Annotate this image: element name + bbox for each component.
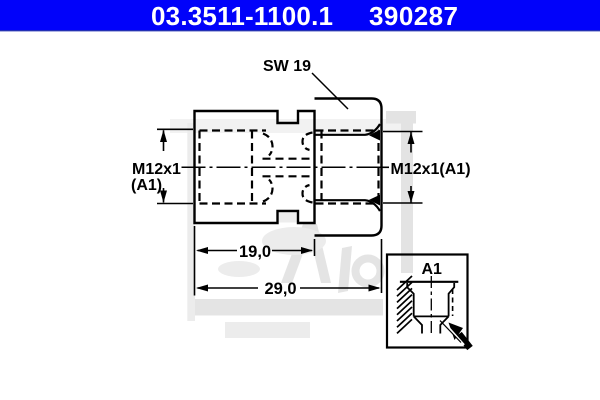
left dim line lower xyxy=(163,188,165,203)
nut thread dashed left xyxy=(320,131,322,204)
watermark e ring xyxy=(356,259,381,284)
inset arrow slit xyxy=(444,323,464,346)
svg-text:29,0: 29,0 xyxy=(265,280,297,298)
watermark swash band xyxy=(188,299,383,316)
watermark A right stroke xyxy=(307,224,331,283)
watermark crossbar xyxy=(386,111,416,124)
nut thread dashed bottom xyxy=(316,202,379,204)
nut thread dashed top xyxy=(316,129,379,131)
inset shoulder xyxy=(414,315,449,317)
nut hex wedge upper xyxy=(369,130,380,141)
dim 19 arrow left xyxy=(196,247,208,254)
watermark stem xyxy=(401,124,413,274)
nut hex flat upper xyxy=(316,124,381,135)
watermark notch blob xyxy=(278,213,298,223)
header bar xyxy=(0,0,600,30)
right dim line lower xyxy=(410,186,412,203)
dim 19 line left xyxy=(198,250,238,252)
watermark sub-swash xyxy=(225,322,310,338)
body thread dashed bottom xyxy=(200,202,267,204)
right dim ext top xyxy=(383,131,423,133)
svg-text:A1: A1 xyxy=(422,261,443,278)
inset hatch xyxy=(397,276,412,333)
watermark t stroke xyxy=(338,246,352,293)
dim 29 ext right xyxy=(381,239,383,293)
inset top line xyxy=(400,281,458,283)
dim 19 arrow right xyxy=(301,247,313,254)
body cone arc upper xyxy=(263,134,273,156)
svg-text:SW 19: SW 19 xyxy=(263,58,311,75)
dim 29 arrow left xyxy=(196,285,208,292)
svg-text:03.3511-1100.1: 03.3511-1100.1 xyxy=(151,1,333,31)
body thread dashed left xyxy=(198,131,200,204)
nut cone arc lower xyxy=(302,185,312,203)
inset arrow shaft xyxy=(459,334,470,348)
left dim ext bottom xyxy=(157,203,193,205)
watermark left band xyxy=(187,123,195,321)
svg-text:M12x1: M12x1 xyxy=(132,161,181,178)
watermark A left stroke xyxy=(281,224,314,283)
svg-text:19,0: 19,0 xyxy=(239,243,271,261)
inset arrow head xyxy=(449,323,464,341)
inset box xyxy=(387,255,468,348)
left dim ext top xyxy=(157,128,193,130)
body thread dashed top xyxy=(200,129,267,131)
body cone arc lower xyxy=(263,180,273,202)
right dim line upper xyxy=(410,132,412,153)
right dim ext bottom xyxy=(383,202,423,204)
inset arrow leader xyxy=(440,321,461,343)
watermark faint band xyxy=(170,119,413,133)
dim 29 line right xyxy=(300,287,379,289)
body thread dashed mid xyxy=(251,131,253,204)
SW19 leader xyxy=(312,73,348,109)
svg-text:390287: 390287 xyxy=(369,1,458,31)
nut outline xyxy=(315,99,382,236)
right dim arrow down xyxy=(408,191,415,203)
inset bottom right xyxy=(440,316,448,333)
left dim line upper xyxy=(163,130,165,151)
body outline xyxy=(195,111,315,223)
nut thread dashed right xyxy=(377,131,379,204)
centerline tick right xyxy=(382,166,390,168)
inset bottom left xyxy=(414,316,422,333)
watermark script mass xyxy=(262,227,326,255)
dim 19 line right xyxy=(272,250,312,252)
bore dashed upper xyxy=(263,158,315,160)
svg-text:(A1): (A1) xyxy=(131,177,162,194)
nut cone arc upper xyxy=(302,133,312,151)
bore dashed lower xyxy=(263,175,315,177)
svg-text:M12x1(A1): M12x1(A1) xyxy=(391,161,471,178)
dim 29 arrow right xyxy=(369,285,381,292)
dim 19 ext right xyxy=(314,239,316,256)
watermark swirl xyxy=(218,261,260,277)
left dim arrow up xyxy=(160,130,167,142)
inset flange left xyxy=(407,283,414,316)
dim 19 ext left xyxy=(194,226,196,296)
inset centerline xyxy=(430,276,432,336)
dim 29 line left xyxy=(198,287,259,289)
right dim arrow up xyxy=(408,132,415,144)
centerline xyxy=(182,166,389,168)
left dim arrow down xyxy=(160,191,167,203)
inset dashed right xyxy=(452,289,454,316)
nut hex wedge lower xyxy=(369,195,380,206)
inset flange right xyxy=(449,283,455,316)
nut hex flat lower xyxy=(316,200,381,211)
